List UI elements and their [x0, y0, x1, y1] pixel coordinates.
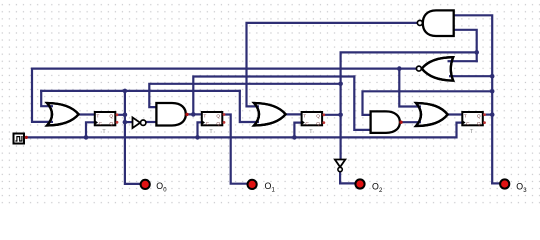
- wire NOR-out branch to OR3 upper input: [399, 69, 417, 107]
- junction clock FF2.C: [195, 135, 200, 140]
- pin dot FF3.Q: [322, 113, 325, 116]
- wire net_B up to NAND lower input: [453, 30, 477, 61]
- junction rail84 FF3.Q: [338, 82, 343, 87]
- svg-text:T: T: [470, 129, 474, 135]
- flip-flop FF3 (T): [302, 112, 323, 135]
- wire clock drop FF3.C: [294, 123, 301, 138]
- junction rail91 FF1.Q: [123, 89, 128, 94]
- junction FF4.Q: [490, 112, 495, 117]
- svg-text:Q: Q: [316, 114, 320, 120]
- junction FF3.Q vertical: [338, 113, 343, 118]
- svg-text:C: C: [206, 121, 210, 127]
- wire stub NOR bottom input: [449, 75, 454, 77]
- flip-flop FF2 (T): [202, 112, 223, 135]
- junction AND1 out: [191, 112, 196, 117]
- wire AND2 output to OR3 lower input: [401, 121, 417, 123]
- wire net_B to NOR upper input: [451, 60, 477, 62]
- or-gate OR1 outline repaint: [47, 103, 79, 126]
- wire FF1.Q rail y=91: [41, 90, 240, 92]
- flip-flop FF1 (T): [95, 112, 116, 135]
- svg-text:Q: Q: [477, 114, 481, 120]
- wire NOR output rail to OR1 lower input: [32, 69, 416, 122]
- pin dot FF1.Q: [116, 113, 119, 116]
- or-gate OR2: [254, 103, 286, 126]
- wire FF4.Q to right vertical: [484, 113, 492, 115]
- svg-text:C: C: [466, 121, 470, 127]
- svg-text:O: O: [516, 181, 523, 191]
- clock source CLK: [14, 134, 28, 144]
- svg-text:Q: Q: [109, 121, 113, 127]
- wire FF1.Q vertical down to O0: [125, 91, 141, 184]
- wire rail91 to OR1 upper input: [41, 91, 50, 106]
- wire stub NOR top input: [448, 60, 453, 62]
- wire FF3.Q output to vertical: [323, 114, 340, 116]
- junction clock FF3.C: [292, 135, 297, 140]
- svg-text:T: T: [96, 114, 99, 120]
- svg-text:Q: Q: [477, 121, 481, 127]
- wire stub OR3 top input: [417, 105, 421, 107]
- svg-text:Q: Q: [216, 121, 220, 127]
- wire net_D rail y=91.3 to AND2 upper input: [363, 91, 493, 115]
- flip-flop FF4 (T): [462, 112, 483, 135]
- wire right vertical x=492 NAND-top to O3: [453, 15, 492, 183]
- output pin O2: [355, 179, 383, 194]
- wire OR1 output to FF1.T: [78, 113, 95, 115]
- wire right vertical to O3 pin: [492, 182, 500, 184]
- wire NOT2 output to O2: [340, 172, 355, 183]
- not-gate NOT2 (pointing down, feeds O2): [335, 160, 345, 172]
- svg-text:C: C: [305, 121, 309, 127]
- junction net_B corner x=476: [474, 50, 479, 55]
- wire stub OR3 bottom input: [417, 121, 421, 123]
- wire OR2 output to FF3.T: [286, 113, 302, 115]
- pin dot FF4.Qbar: [483, 121, 486, 124]
- wire NOT1 output to AND1 lower input: [146, 121, 156, 123]
- or-gate OR1: [47, 103, 79, 126]
- nor-gate U2 outline repaint: [422, 57, 453, 80]
- svg-text:T: T: [303, 114, 306, 120]
- svg-text:C: C: [99, 121, 103, 127]
- wire stub OR1 bottom input: [48, 121, 53, 123]
- pin dot FF3.Qbar: [322, 121, 325, 124]
- wire clock drop FF2.C: [198, 122, 202, 137]
- wire clock drop FF1.C: [86, 122, 95, 137]
- wire FF1 Q to vertical: [117, 114, 125, 116]
- svg-text:O: O: [156, 181, 163, 191]
- svg-text:T: T: [203, 114, 206, 120]
- nor-gate U2 (mirrored, output left): [416, 57, 453, 80]
- output pin O0: [141, 180, 168, 194]
- wire FF1.Q branch to NOT1 input: [125, 121, 133, 123]
- svg-text:T: T: [464, 114, 467, 120]
- pin dot FF2.Q: [223, 113, 226, 116]
- and-gate AND1: [156, 103, 188, 126]
- svg-text:Q: Q: [109, 114, 113, 120]
- wire FF3.Q rail to AND1 upper input: [149, 84, 340, 107]
- not-gate NOT1: [133, 117, 146, 128]
- or-gate OR3: [416, 103, 448, 126]
- wire OR3 output to FF4.T: [447, 113, 462, 115]
- junction FF1.Q NOT1 branch: [123, 120, 128, 125]
- or-gate OR3 outline repaint: [416, 103, 448, 126]
- pin dot FF4.Q: [483, 113, 486, 116]
- or-gate OR2 outline repaint: [254, 103, 286, 126]
- svg-text:Q: Q: [216, 114, 220, 120]
- junction NOR-out / OR3 branch: [397, 66, 402, 71]
- wire NOR lower input to right vertical: [454, 75, 492, 77]
- wire AND1-net down to AND2 lower input: [354, 77, 370, 130]
- svg-text:O: O: [372, 181, 379, 191]
- junction clock FF1.C: [84, 135, 89, 140]
- pin dot FF2.Qbar: [223, 121, 226, 124]
- svg-text:T: T: [102, 129, 106, 135]
- output pin O3: [500, 179, 527, 194]
- output pin O1: [248, 180, 276, 194]
- svg-text:T: T: [209, 129, 213, 135]
- junction NOR lower input: [490, 74, 495, 79]
- wire NAND output to OR2 upper input: [247, 23, 418, 107]
- junction rail91.3 right: [490, 89, 495, 94]
- svg-text:O: O: [265, 181, 272, 191]
- wire AND1 output to FF2.T: [187, 113, 202, 115]
- wire rail91 to OR2 lower input: [240, 91, 256, 122]
- junction FF1.Q output: [123, 113, 128, 118]
- wire stub OR1 top input into concavity: [48, 61, 454, 122]
- svg-text:Q: Q: [316, 121, 320, 127]
- wire FF3.Q vertical (NAND/NOR feed down to NOT2): [341, 52, 477, 159]
- pin dot FF1.Qbar: [116, 121, 119, 124]
- wire AND1-out vertical up: [193, 77, 354, 115]
- wire stub OR2 top input: [255, 105, 259, 107]
- wire stub OR2 bottom input: [255, 121, 259, 123]
- nand-gate U1 (mirrored, output left): [417, 10, 453, 36]
- wire clock rail: [25, 123, 462, 138]
- and-gate AND2: [371, 111, 403, 132]
- wire FF2.Q down to O1: [224, 115, 248, 184]
- svg-text:T: T: [309, 129, 313, 135]
